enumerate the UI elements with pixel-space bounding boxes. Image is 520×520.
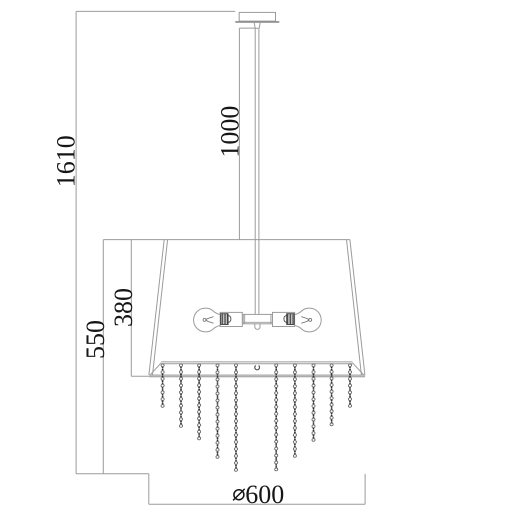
ceiling canopy <box>239 12 275 21</box>
central arm body <box>243 314 272 323</box>
hanging chain 5 <box>234 364 237 471</box>
shade left edge (double line) <box>149 240 168 375</box>
bar right diagonal <box>353 363 364 375</box>
svg-text:1610: 1610 <box>52 135 81 187</box>
hanging chain 10 <box>348 364 351 407</box>
svg-text:1000: 1000 <box>216 106 245 158</box>
svg-text:380: 380 <box>109 288 138 327</box>
diameter dimension riser left <box>148 474 150 505</box>
hanging chain 3 <box>198 364 201 440</box>
lamp socket right <box>273 312 295 326</box>
lamp shade top edge <box>164 239 350 241</box>
extension line at shade top <box>103 239 164 241</box>
dimension line 1000 (rod length) <box>238 28 240 240</box>
svg-text:550: 550 <box>81 320 110 359</box>
suspension rod <box>255 28 259 314</box>
extension line at shade hem <box>131 375 149 377</box>
center hook ring <box>255 366 260 370</box>
hanging chain 8 <box>312 364 315 441</box>
bulb glass R <box>295 308 322 332</box>
hanging chain 6 <box>275 364 278 471</box>
shade bottom hem (double line) <box>149 375 365 377</box>
bottom datum line <box>76 473 149 475</box>
dimension line 1610 (overall height) <box>75 11 77 473</box>
dimension line 380 (shade height) <box>130 240 132 377</box>
lamp socket left <box>220 312 242 326</box>
bar left diagonal <box>150 363 161 375</box>
diameter dimension riser right <box>364 474 366 505</box>
bulb screw cap L <box>221 314 231 325</box>
bulb filament R <box>301 317 309 324</box>
canopy flange plate <box>235 21 279 23</box>
top extension line to canopy <box>76 10 235 12</box>
hanging chain 2 <box>179 364 182 427</box>
diameter dimension line <box>149 503 365 505</box>
extension line under canopy <box>239 27 255 29</box>
label diameter 600 <box>233 480 284 509</box>
hanging chain 1 <box>161 364 164 407</box>
dimension line 550 (shade+chains height) <box>102 240 104 474</box>
svg-text:600: 600 <box>245 480 284 509</box>
hanging chain 7 <box>293 364 296 457</box>
bulb screw cap R <box>284 314 294 325</box>
chain support bar <box>161 362 352 364</box>
finial nub under arm <box>255 324 260 330</box>
shade right edge (double line) <box>347 240 365 375</box>
canopy neck <box>254 23 260 28</box>
bulb filament L <box>206 317 214 324</box>
hanging chain 4 <box>216 364 219 458</box>
hanging chain 9 <box>330 364 333 426</box>
bulb glass L <box>194 308 221 332</box>
